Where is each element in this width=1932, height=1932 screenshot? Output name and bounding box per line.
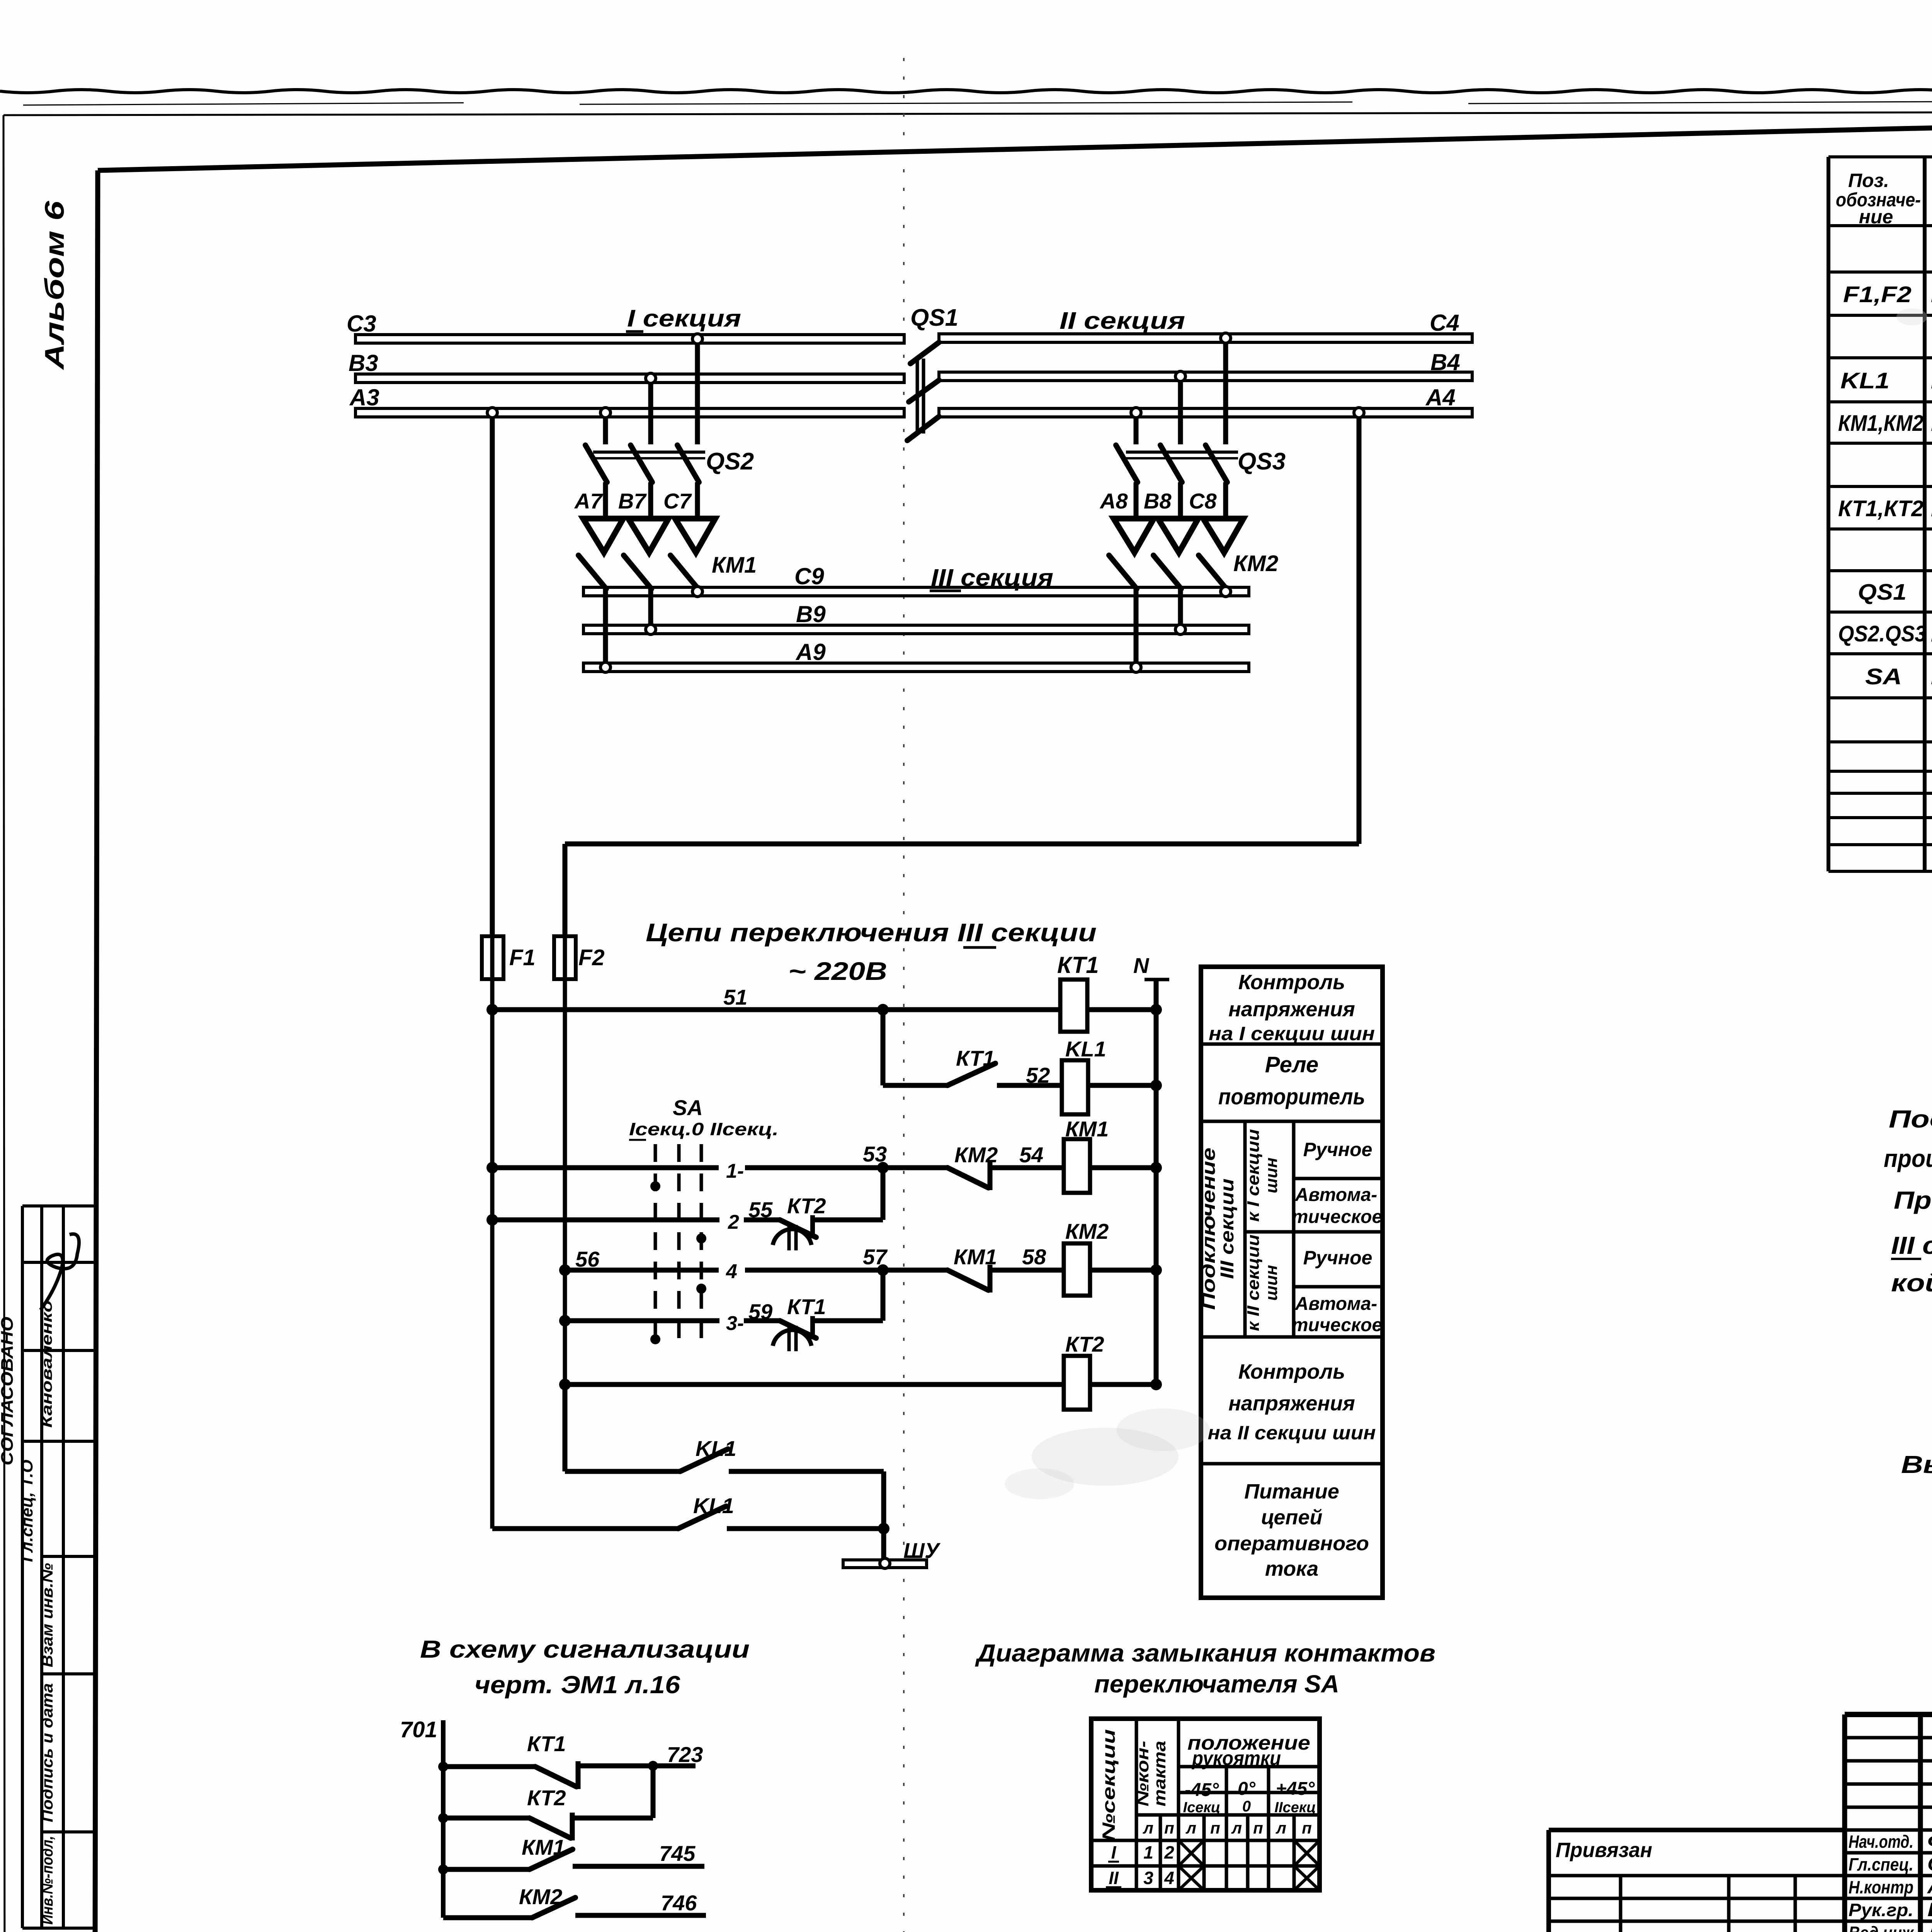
wire: N line: [1133, 953, 1169, 1384]
svg-text:КМ1,КМ2: КМ1,КМ2: [1838, 411, 1923, 436]
title block: signature rows: [1845, 1830, 1932, 1932]
svg-text:SA: SA: [1865, 664, 1902, 689]
svg-text:QS2.QS3: QS2.QS3: [1838, 621, 1926, 646]
relay coil KM1: [1064, 1117, 1109, 1193]
svg-text:п: п: [1302, 1819, 1312, 1837]
svg-text:л: л: [1276, 1819, 1286, 1837]
svg-text:723: 723: [667, 1742, 703, 1767]
svg-text:Гл.спец.: Гл.спец.: [1849, 1854, 1913, 1874]
svg-text:Подключение III секции к одной: Подключение III секции к одной из секций…: [1889, 1105, 1932, 1133]
svg-text:к I секции: к I секции: [1244, 1129, 1263, 1222]
svg-text:0°: 0°: [1238, 1779, 1256, 1799]
margin signature: [41, 1234, 79, 1310]
parts row: QS1 switch: [1858, 580, 1932, 605]
switch QS1: [907, 304, 958, 440]
svg-text:п: п: [1164, 1819, 1174, 1837]
svg-text:КТ1: КТ1: [527, 1731, 566, 1756]
wire: left vertical V1: [490, 979, 495, 1529]
svg-text:4: 4: [1164, 1868, 1174, 1888]
label II section: [1060, 308, 1185, 334]
right feeder wire from A4: [565, 408, 1364, 936]
scan smudges: [1005, 308, 1927, 1499]
svg-text:Кановаленко: Кановаленко: [39, 1300, 55, 1428]
svg-text:КТ1,КТ2: КТ1,КТ2: [1838, 496, 1923, 521]
svg-text:КТ1: КТ1: [1057, 952, 1099, 978]
bus A4: [939, 384, 1472, 417]
svg-text:Ручное: Ручное: [1303, 1139, 1372, 1160]
svg-text:Iсекц.0 IIсекц.: Iсекц.0 IIсекц.: [629, 1119, 779, 1139]
contactor KM2 (power contacts): [1109, 551, 1278, 672]
parts table grid: [1828, 157, 1932, 871]
svg-text:переключателя SA: переключателя SA: [1094, 1670, 1339, 1698]
svg-text:F2: F2: [578, 945, 605, 970]
margin label: vzam inv: [39, 1563, 56, 1667]
svg-text:Рук.гр.: Рук.гр.: [1849, 1900, 1913, 1920]
svg-text:51: 51: [723, 985, 747, 1009]
margin note: name: [39, 1300, 55, 1428]
function table texts: [1199, 971, 1382, 1580]
bus A9: [583, 639, 1249, 672]
svg-text:шин: шин: [1262, 1158, 1281, 1194]
wire to coil KT2: [559, 1379, 1162, 1390]
svg-text:I секция: I секция: [627, 305, 741, 332]
svg-text:701: 701: [400, 1717, 437, 1742]
svg-text:Привязан: Привязан: [1556, 1838, 1652, 1862]
svg-text:цепей: цепей: [1261, 1506, 1323, 1529]
svg-text:Цепи переключения III секции: Цепи переключения III секции: [646, 918, 1097, 947]
title block: left box (Privyazan): [1549, 1830, 1845, 1932]
node circles QS2 top: [600, 334, 702, 418]
parts row: F1,F2 fuse: [1843, 282, 1932, 307]
svg-text:на I секции шин: на I секции шин: [1209, 1023, 1375, 1044]
contact KL1 upper: [565, 1384, 884, 1529]
wire 59 + time contact KT1: [559, 1270, 883, 1351]
switch QS2: [585, 343, 754, 482]
node circles QS3 top: [1131, 333, 1231, 418]
svg-text:Iсекц: Iсекц: [1183, 1799, 1221, 1816]
svg-text:Выдержку времени реле КТ1 и КТ: Выдержку времени реле КТ1 и КТ2 принять …: [1901, 1451, 1932, 1478]
svg-text:Подпись и дата: Подпись и дата: [39, 1683, 56, 1822]
svg-text:А8: А8: [1099, 489, 1128, 513]
svg-text:такта: такта: [1150, 1741, 1169, 1806]
bus B3: [349, 350, 904, 383]
svg-text:на II секции шин: на II секции шин: [1208, 1422, 1376, 1444]
left margin table: [22, 1206, 94, 1928]
svg-text:Инв.№-подл,: Инв.№-подл,: [39, 1836, 56, 1925]
svg-text:F1,F2: F1,F2: [1843, 282, 1912, 307]
svg-text:Контроль: Контроль: [1238, 971, 1345, 994]
svg-text:C4: C4: [1430, 310, 1459, 336]
svg-text:производится с помощью переклю: производится с помощью переключателя SA.: [1884, 1145, 1932, 1172]
wire 53 + contact KM2: [486, 1142, 1162, 1190]
svg-text:Автома-: Автома-: [1295, 1294, 1378, 1314]
svg-text:шин: шин: [1262, 1265, 1281, 1301]
svg-text:В4: В4: [1430, 349, 1460, 375]
relay coil KT2: [1064, 1332, 1104, 1410]
svg-text:КМ2: КМ2: [954, 1143, 998, 1167]
svg-text:QS1: QS1: [1858, 580, 1906, 605]
svg-text:~ 220В: ~ 220В: [788, 957, 887, 985]
wire: left vertical V2: [563, 979, 567, 1471]
SA diagram caption: [975, 1639, 1435, 1698]
svg-text:745: 745: [659, 1841, 696, 1866]
relay coil KT1: [1057, 952, 1099, 1032]
fold crease line: [903, 58, 905, 1932]
function table grid: [1201, 967, 1383, 1598]
svg-text:тическое: тическое: [1292, 1315, 1382, 1335]
svg-text:КМ1: КМ1: [712, 553, 757, 578]
svg-text:Вед.инж: Вед.инж: [1849, 1923, 1914, 1932]
parts row: KM1,KM2 contactor: [1838, 411, 1932, 436]
svg-text:I: I: [1111, 1842, 1117, 1862]
svg-text:КМ1: КМ1: [954, 1245, 997, 1269]
svg-text:3-: 3-: [726, 1312, 744, 1335]
svg-text:QS1: QS1: [910, 304, 958, 331]
note: relay time delay: [1901, 1451, 1932, 1478]
svg-text:КТ2: КТ2: [787, 1194, 826, 1218]
fuse-feeders A7 B7 C7: [574, 482, 715, 553]
svg-text:Ручное: Ручное: [1303, 1247, 1372, 1269]
label III section: [930, 565, 1053, 591]
svg-text:Поз.: Поз.: [1848, 170, 1889, 191]
svg-text:п: п: [1253, 1819, 1263, 1837]
svg-text:тока: тока: [1265, 1557, 1318, 1580]
svg-text:Гл.спец, Т.О: Гл.спец, Т.О: [18, 1460, 36, 1562]
margin note: gl.spec: [18, 1460, 36, 1562]
label I section: [626, 305, 741, 332]
svg-text:Контроль: Контроль: [1238, 1360, 1345, 1383]
svg-text:II секция: II секция: [1060, 308, 1185, 334]
svg-text:№секции: №секции: [1099, 1729, 1119, 1841]
svg-text:При исчезновении напряжения н: При исчезновении напряжения на этой секц…: [1894, 1186, 1932, 1214]
bus C4 (II section): [939, 310, 1472, 342]
SA diagram table: [1091, 1719, 1320, 1890]
svg-text:напряжения: напряжения: [1228, 1392, 1355, 1415]
svg-text:рукоятки: рукоятки: [1191, 1747, 1281, 1770]
svg-text:QS2: QS2: [706, 448, 754, 475]
svg-text:C8: C8: [1189, 489, 1217, 513]
node ShU (operative bus): [843, 1529, 941, 1568]
wire 56-57 + contact KM1: [559, 1245, 1162, 1293]
svg-text:л: л: [1185, 1819, 1196, 1837]
svg-text:-45°: -45°: [1185, 1780, 1219, 1800]
svg-text:KL1: KL1: [1065, 1037, 1106, 1061]
left feeder wire from A3: [487, 408, 497, 936]
svg-text:л: л: [1231, 1819, 1242, 1837]
relay coil KL1: [1062, 1037, 1106, 1114]
svg-text:Реле: Реле: [1265, 1052, 1318, 1077]
svg-text:KL1: KL1: [1840, 368, 1889, 393]
svg-text:N: N: [1133, 953, 1150, 978]
svg-text:В схему сигнализации: В схему сигнализации: [420, 1635, 750, 1663]
svg-text:тическое: тическое: [1292, 1207, 1382, 1227]
svg-text:к II секции: к II секции: [1244, 1235, 1263, 1331]
fuse-feeders A8 B8 C8: [1099, 482, 1243, 553]
bus B4: [939, 349, 1472, 381]
parts row: KT1,KT2 relay: [1838, 496, 1932, 521]
svg-text:54: 54: [1019, 1143, 1043, 1167]
bus C3 (I section): [347, 311, 904, 343]
svg-text:КТ1: КТ1: [956, 1046, 995, 1070]
svg-text:746: 746: [661, 1891, 697, 1915]
parts row: QS2,QS3 switch: [1838, 621, 1932, 646]
svg-text:QS3: QS3: [1238, 448, 1286, 475]
svg-text:1: 1: [1143, 1842, 1153, 1862]
svg-text:III секция: III секция: [931, 565, 1053, 591]
margin label: inv no podl: [39, 1836, 56, 1925]
svg-text:3: 3: [1143, 1868, 1153, 1888]
svg-text:C9: C9: [794, 563, 824, 589]
bus A3: [349, 384, 904, 417]
svg-text:КМ2: КМ2: [1065, 1219, 1109, 1243]
svg-text:В8: В8: [1144, 489, 1172, 513]
svg-text:Баруан: Баруан: [1927, 1899, 1932, 1920]
parts row: KL1 relay: [1840, 368, 1932, 393]
relay coil KM2: [1064, 1219, 1109, 1296]
svg-text:F1: F1: [509, 945, 536, 970]
note paragraph: [1884, 1105, 1932, 1297]
svg-text:58: 58: [1022, 1245, 1046, 1269]
svg-text:черт. ЭМ1 л.16: черт. ЭМ1 л.16: [474, 1671, 680, 1699]
svg-text:№кон-: №кон-: [1133, 1741, 1152, 1806]
svg-text:л: л: [1143, 1819, 1153, 1837]
svg-text:0: 0: [1242, 1798, 1251, 1815]
svg-text:Питание: Питание: [1244, 1480, 1339, 1503]
contact KM1 to 745: [438, 1835, 704, 1874]
svg-text:ние: ние: [1859, 206, 1893, 228]
svg-text:КТ2: КТ2: [527, 1786, 566, 1810]
bus C9 (III section): [583, 563, 1249, 596]
contact KL1 lower: [492, 1493, 889, 1534]
svg-text:2: 2: [728, 1211, 739, 1233]
svg-text:КТ2: КТ2: [1065, 1332, 1104, 1356]
svg-text:СОГЛАСОВАНО: СОГЛАСОВАНО: [0, 1317, 17, 1466]
svg-text:кой времени на питание от дру: кой времени на питание от другой секции: [1891, 1269, 1932, 1297]
svg-text:SA: SA: [673, 1095, 703, 1120]
svg-text:Аронсон: Аронсон: [1927, 1876, 1932, 1898]
wire 51: [486, 985, 1162, 1015]
svg-text:Диаграмма замыкания контактов: Диаграмма замыкания контактов: [975, 1639, 1435, 1667]
svg-text:напряжения: напряжения: [1228, 998, 1355, 1021]
svg-text:C3: C3: [347, 311, 376, 337]
svg-text:А9: А9: [795, 639, 826, 665]
album label (rotated): [39, 201, 70, 371]
parts table header: [1836, 170, 1932, 228]
svg-text:4: 4: [726, 1260, 737, 1283]
svg-text:В7: В7: [618, 489, 647, 513]
torn paper top edge: [0, 66, 1932, 105]
svg-text:Фролов: Фролов: [1927, 1830, 1932, 1852]
svg-text:II: II: [1109, 1868, 1119, 1888]
margin note: soglasovano: [0, 1317, 17, 1466]
svg-text:п: п: [1210, 1819, 1220, 1837]
svg-text:КТ1: КТ1: [787, 1294, 826, 1319]
svg-text:повторитель: повторитель: [1218, 1084, 1365, 1109]
svg-text:А3: А3: [349, 384, 379, 410]
svg-text:III секции: III секции: [1217, 1179, 1238, 1279]
contact KT2: [438, 1766, 653, 1840]
svg-text:В3: В3: [349, 350, 378, 376]
contact KM2 to 746: [443, 1884, 706, 1918]
contact KT1 to 723: [438, 1731, 703, 1789]
svg-text:оперативного: оперативного: [1214, 1532, 1369, 1555]
svg-text:КМ2: КМ2: [1233, 551, 1278, 576]
fuse F2: [554, 936, 605, 979]
margin label: podpis i data: [39, 1683, 56, 1822]
switch QS3: [1116, 342, 1286, 482]
bus B9: [583, 601, 1249, 634]
svg-text:C7: C7: [663, 489, 692, 513]
svg-text:Взам инв.№: Взам инв.№: [39, 1563, 56, 1667]
svg-text:Автома-: Автома-: [1295, 1185, 1378, 1205]
wire 52 + contact KT1: [883, 1010, 1162, 1091]
svg-text:В9: В9: [796, 601, 826, 627]
svg-text:IIсекц: IIсекц: [1274, 1799, 1316, 1816]
svg-text:1-: 1-: [726, 1160, 744, 1182]
svg-text:Альбом 6: Альбом 6: [39, 201, 70, 371]
wire 55 + time contact KT2: [486, 1168, 883, 1250]
svg-text:2: 2: [1164, 1842, 1174, 1862]
svg-text:+45°: +45°: [1276, 1779, 1315, 1799]
signal circuit caption: [420, 1635, 750, 1699]
fuse F1: [482, 936, 536, 979]
contactor KM1 (power contacts): [578, 553, 757, 672]
node 701: [400, 1717, 443, 1918]
title block: revision table: [1845, 1714, 1932, 1932]
svg-text:Н.контр: Н.контр: [1849, 1877, 1913, 1897]
svg-text:Нач.отд.: Нач.отд.: [1849, 1832, 1913, 1852]
svg-text:А4: А4: [1425, 384, 1456, 410]
selector switch SA dashed stems: [629, 1095, 779, 1349]
parts row: SA selector: [1865, 664, 1932, 689]
svg-text:III секция автоматически перек: III секция автоматически переключается с…: [1891, 1231, 1932, 1259]
svg-text:Обозная: Обозная: [1927, 1853, 1932, 1875]
svg-text:А7: А7: [574, 489, 603, 513]
svg-text:Подключение: Подключение: [1199, 1148, 1219, 1310]
svg-text:52: 52: [1026, 1063, 1050, 1087]
control circuit title: [646, 918, 1097, 985]
